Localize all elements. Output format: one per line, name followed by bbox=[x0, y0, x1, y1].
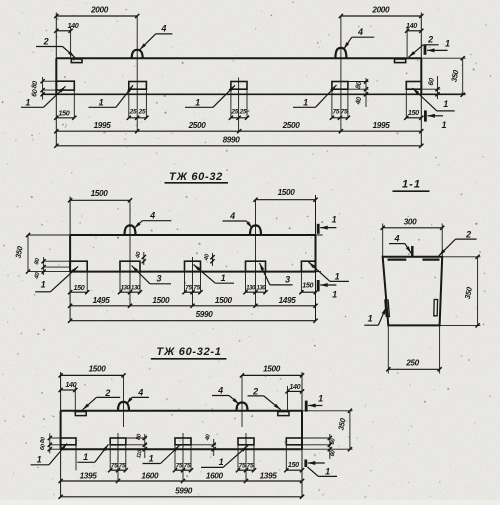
svg-text:1: 1 bbox=[41, 280, 46, 290]
svg-text:1500: 1500 bbox=[215, 296, 233, 305]
svg-text:75: 75 bbox=[184, 462, 191, 469]
section: trapezoid body bbox=[383, 257, 443, 326]
svg-text:1: 1 bbox=[149, 454, 154, 464]
svg-text:250: 250 bbox=[405, 359, 419, 368]
svg-text:1495: 1495 bbox=[279, 296, 297, 305]
dimension 1500 (top left) bbox=[70, 199, 130, 201]
dimension 2000 (top right) bbox=[341, 15, 421, 17]
dimension 8990 (overall) bbox=[56, 145, 421, 147]
svg-text:25: 25 bbox=[129, 108, 137, 115]
dimension 150 (row1 left) bbox=[56, 117, 74, 119]
svg-text:75: 75 bbox=[176, 462, 183, 469]
wire: right end extension line bbox=[420, 13, 422, 59]
svg-text:4: 4 bbox=[160, 23, 166, 33]
dimension 75|75 (row1 pos3) bbox=[185, 291, 201, 293]
wire: loop right centerline bbox=[340, 16, 342, 132]
svg-text:1500: 1500 bbox=[89, 365, 107, 374]
dimension 75|75 (row1 pos4) bbox=[238, 469, 254, 471]
wire: plate P3 centerline bbox=[238, 78, 240, 132]
dimension 150 (row1 left) bbox=[70, 291, 87, 293]
svg-text:75: 75 bbox=[239, 462, 246, 469]
dimension 60/60 (right end) bbox=[302, 437, 331, 439]
dimension 40 (at plate pos3) bbox=[212, 253, 214, 266]
svg-text:130: 130 bbox=[121, 284, 131, 291]
svg-text:1500: 1500 bbox=[152, 296, 170, 305]
dimension 80 (left side) bbox=[43, 80, 57, 82]
scan noise speckles (decorative) bbox=[162, 76, 164, 78]
svg-text:150: 150 bbox=[302, 280, 313, 289]
svg-text:2000: 2000 bbox=[371, 6, 390, 15]
lifting loop 4 (right) bbox=[237, 403, 248, 411]
dimension 140 (top right) bbox=[287, 386, 289, 412]
svg-text:1: 1 bbox=[318, 394, 323, 404]
wire: beam right end bbox=[315, 235, 317, 272]
dimension 2000 (top left) bbox=[56, 15, 137, 17]
plate 2 (top left embedded) bbox=[75, 412, 86, 416]
svg-text:4: 4 bbox=[137, 388, 143, 398]
dimension 40 (between pos3 and pos4) bbox=[191, 444, 216, 446]
wire: beam top edge bbox=[56, 57, 421, 59]
wire: beam right end bbox=[420, 58, 422, 94]
dimension 1500 (top left) bbox=[61, 374, 124, 376]
dimension 80/40 (at plate pos 4) bbox=[348, 81, 369, 83]
dimension 350 (right side) bbox=[302, 410, 353, 412]
wire: beam bottom edge bbox=[70, 271, 315, 273]
dimension 130|130 (row1 pos2) bbox=[120, 291, 140, 293]
svg-text:1500: 1500 bbox=[278, 188, 296, 197]
wire: loop right centerline bbox=[255, 200, 257, 306]
svg-text:1: 1 bbox=[195, 97, 200, 107]
svg-text:5990: 5990 bbox=[175, 487, 193, 496]
dimension 5990 (overall) bbox=[70, 320, 315, 322]
plate 2 (top right embedded) bbox=[278, 412, 289, 416]
svg-text:1: 1 bbox=[219, 457, 224, 467]
plate 1 (bottom, pos 3) bbox=[231, 82, 247, 90]
plate 3 (pos 4) bbox=[246, 261, 266, 271]
svg-text:75: 75 bbox=[119, 462, 126, 469]
wire: plate P3 centerline bbox=[192, 257, 194, 306]
svg-text:25: 25 bbox=[239, 108, 247, 115]
svg-text:1: 1 bbox=[83, 452, 88, 462]
dimension row 1495/1500/1500/1495 bbox=[70, 305, 315, 307]
svg-text:2500: 2500 bbox=[188, 121, 207, 130]
dimension 25|25 (row1 pos3) bbox=[231, 117, 247, 119]
plate 1 (right side, in section) bbox=[434, 300, 438, 316]
svg-text:4: 4 bbox=[217, 385, 223, 395]
lifting loop 4 (right) bbox=[335, 48, 346, 58]
dimension 150 (row1 right) bbox=[301, 291, 315, 293]
wire: beam bottom edge bbox=[43, 93, 466, 95]
wire: beam left end bbox=[55, 58, 57, 94]
plate 1 (bottom right end) bbox=[286, 438, 302, 445]
svg-text:3: 3 bbox=[285, 275, 290, 285]
dimension 130|130 (row1 pos4) bbox=[246, 291, 266, 293]
dimension 250 (section bottom) bbox=[387, 325, 389, 373]
svg-text:130: 130 bbox=[246, 284, 256, 291]
plate 1 (bottom pos2) bbox=[110, 438, 126, 445]
svg-text:75: 75 bbox=[247, 462, 254, 469]
svg-text:300: 300 bbox=[404, 217, 417, 226]
lifting loop 4 (left) bbox=[125, 225, 136, 235]
svg-text:1: 1 bbox=[25, 98, 30, 108]
svg-text:130: 130 bbox=[256, 284, 266, 291]
svg-text:2: 2 bbox=[465, 229, 471, 239]
dimension 140 (top right) bbox=[406, 27, 408, 58]
svg-text:4: 4 bbox=[393, 234, 399, 244]
svg-text:8990: 8990 bbox=[223, 136, 241, 145]
plate 1 (bottom, pos 2) bbox=[129, 82, 147, 90]
dimension 300 (section top) bbox=[382, 224, 384, 257]
svg-text:150: 150 bbox=[408, 108, 419, 117]
svg-text:1: 1 bbox=[99, 97, 104, 107]
svg-text:1600: 1600 bbox=[206, 472, 224, 481]
section cut 1 (bottom right) bbox=[316, 271, 322, 273]
svg-text:1: 1 bbox=[221, 273, 226, 283]
section mark 1 bbox=[304, 460, 307, 468]
svg-text:1600: 1600 bbox=[141, 472, 159, 481]
dimension 80 (left side) bbox=[44, 260, 71, 262]
wire: left end extension bbox=[69, 197, 71, 236]
wire: beam right end bbox=[301, 411, 303, 449]
dimension 80 (at plate pos2) bbox=[126, 437, 147, 439]
plate 3 (pos 2) bbox=[120, 261, 140, 271]
svg-text:4: 4 bbox=[229, 211, 235, 221]
plate 1 (pos 3, middle) bbox=[185, 261, 201, 271]
plate 1 (bottom, pos 4) bbox=[332, 82, 348, 90]
svg-text:1500: 1500 bbox=[263, 365, 281, 374]
plate 1 (bottom, left end) bbox=[56, 81, 74, 90]
dimension 60 (right end) bbox=[421, 88, 440, 90]
wire: beam left end bbox=[69, 235, 71, 272]
wire: loop left centerline bbox=[136, 16, 138, 132]
plate 1 (right end) bbox=[301, 261, 315, 271]
svg-text:75: 75 bbox=[111, 462, 118, 469]
svg-text:2: 2 bbox=[427, 34, 433, 44]
svg-text:140: 140 bbox=[289, 382, 300, 391]
svg-text:2000: 2000 bbox=[90, 6, 109, 15]
dimension 5990 (overall) bbox=[61, 496, 302, 498]
svg-text:150: 150 bbox=[74, 283, 85, 292]
svg-text:1995: 1995 bbox=[373, 121, 391, 130]
section cut 1 (top right) bbox=[316, 234, 323, 236]
svg-text:1-1: 1-1 bbox=[402, 178, 421, 190]
svg-text:1: 1 bbox=[37, 455, 42, 465]
section mark 1 bbox=[424, 45, 427, 55]
lifting loop 4 (left) bbox=[118, 402, 129, 411]
svg-text:2: 2 bbox=[43, 36, 49, 46]
lifting loop 4 (right) bbox=[250, 225, 261, 235]
wire: left end extension line bbox=[55, 13, 57, 59]
svg-text:ТЖ 60-32: ТЖ 60-32 bbox=[169, 171, 223, 183]
wire: beam top edge bbox=[70, 234, 315, 236]
svg-text:4: 4 bbox=[149, 210, 155, 220]
plate 2 (top right embedded plate) bbox=[395, 59, 406, 63]
svg-text:75: 75 bbox=[333, 108, 340, 115]
svg-text:4: 4 bbox=[357, 27, 363, 37]
dimension 25|25 (row1 pos2) bbox=[129, 117, 147, 119]
svg-text:ТЖ 60-32-1: ТЖ 60-32-1 bbox=[156, 346, 221, 358]
wire: loop left centerline bbox=[129, 200, 131, 306]
svg-text:130: 130 bbox=[131, 284, 141, 291]
plate 1 (bottom pos3) bbox=[175, 438, 191, 445]
svg-text:1: 1 bbox=[445, 38, 450, 48]
dimension 40 (at plate pos2) bbox=[143, 252, 145, 265]
dimension 140 (top left) bbox=[74, 386, 76, 412]
plate 1 (bottom pos4) bbox=[238, 438, 254, 445]
svg-text:2500: 2500 bbox=[282, 121, 301, 130]
svg-text:1: 1 bbox=[443, 99, 448, 109]
dimension 75|75 (row1 pos4) bbox=[332, 117, 348, 119]
dimension 350 (right side) bbox=[421, 57, 465, 59]
dimension 350 (section right) bbox=[442, 256, 480, 258]
wire: beam left end bbox=[60, 411, 62, 449]
svg-text:25: 25 bbox=[230, 108, 238, 115]
svg-text:150: 150 bbox=[288, 460, 299, 469]
svg-text:1500: 1500 bbox=[91, 189, 109, 198]
svg-text:140: 140 bbox=[406, 21, 417, 30]
svg-text:1: 1 bbox=[332, 290, 337, 300]
svg-text:140: 140 bbox=[65, 380, 76, 389]
section mark 1 bbox=[305, 401, 308, 412]
wire: right end extension bbox=[315, 195, 317, 235]
svg-text:25: 25 bbox=[138, 108, 146, 115]
wire: loop left centerline bbox=[123, 376, 125, 427]
dimension 75|75 (row1 pos2) bbox=[110, 469, 126, 471]
wire: beam top edge bbox=[61, 410, 302, 412]
svg-text:1395: 1395 bbox=[260, 472, 278, 481]
svg-text:1: 1 bbox=[335, 272, 340, 282]
svg-text:150: 150 bbox=[59, 108, 70, 117]
dimension 75|75 (row1 pos3) bbox=[175, 469, 191, 471]
plate 1 (left side, in section) bbox=[385, 300, 390, 317]
dimension 140 (top left) bbox=[70, 27, 72, 58]
svg-text:1: 1 bbox=[332, 215, 337, 225]
dimension 150 (row1 right) bbox=[406, 117, 421, 119]
plate 1 (bottom, right end) bbox=[406, 82, 421, 90]
dimension 1500 (top right) bbox=[242, 374, 302, 376]
plate 2 (top right, in section) bbox=[423, 258, 440, 260]
svg-text:1: 1 bbox=[325, 466, 330, 476]
section mark 1 bbox=[317, 224, 320, 234]
wire: left end extension bbox=[60, 372, 62, 411]
svg-text:1995: 1995 bbox=[94, 121, 112, 130]
svg-text:140: 140 bbox=[68, 21, 79, 30]
dimension 150 (row1 right) bbox=[286, 469, 302, 471]
svg-text:1: 1 bbox=[303, 97, 308, 107]
plate 2 (top left embedded plate) bbox=[71, 59, 82, 63]
svg-text:2: 2 bbox=[252, 386, 258, 396]
wire: right end extension bbox=[301, 372, 303, 411]
svg-text:1395: 1395 bbox=[80, 472, 98, 481]
plate 2 (top left, in section) bbox=[388, 258, 407, 260]
plate 1 (left end) bbox=[70, 261, 87, 271]
loop 4 stub (in section) bbox=[411, 246, 414, 257]
svg-text:75: 75 bbox=[193, 284, 200, 291]
section mark 1 bbox=[424, 110, 427, 121]
lifting loop 4 (left) bbox=[132, 50, 143, 58]
svg-text:1: 1 bbox=[441, 120, 446, 130]
svg-text:75: 75 bbox=[341, 108, 348, 115]
label 1 (right end plate) leader tail bbox=[308, 467, 319, 476]
dimension 350 (left side) bbox=[28, 234, 70, 236]
svg-text:5990: 5990 bbox=[196, 310, 214, 319]
svg-text:3: 3 bbox=[156, 273, 161, 283]
svg-text:1: 1 bbox=[368, 313, 373, 323]
wire: loop right centerline bbox=[241, 376, 243, 427]
wire: beam bottom edge bbox=[61, 448, 302, 450]
dimension 1500 (top right) bbox=[256, 199, 316, 201]
dimension row 1395/1600/1600/1395 bbox=[61, 480, 302, 482]
svg-text:2: 2 bbox=[104, 388, 110, 398]
plate 1 (bottom left end) bbox=[61, 438, 76, 445]
section mark 1 bbox=[317, 280, 320, 291]
svg-text:75: 75 bbox=[185, 284, 192, 291]
dimension 80 (left side) bbox=[50, 437, 61, 439]
dimension row 1995/2500/2500/1995 bbox=[56, 130, 421, 132]
